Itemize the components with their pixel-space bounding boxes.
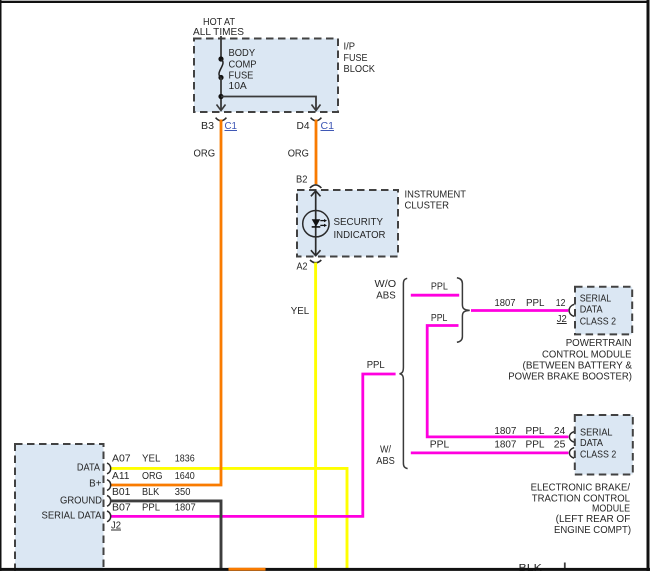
svg-text:1807: 1807 [494,426,516,437]
wire PPL serial data B07 up to brace [110,374,396,516]
svg-text:PPL: PPL [526,439,546,450]
wire PPL 25 W/ ABS [411,451,569,454]
svg-text:J2: J2 [111,521,121,532]
arrowhead B3 [217,105,226,111]
svg-text:CLASS 2: CLASS 2 [580,450,616,461]
instrument cluster box [297,190,398,257]
svg-text:SECURITY: SECURITY [334,217,384,228]
svg-text:YEL: YEL [142,454,161,465]
svg-text:POWERTRAIN: POWERTRAIN [566,338,632,349]
svg-text:B+: B+ [89,479,102,490]
wire BLK ground down [110,501,221,569]
svg-text:CLASS 2: CLASS 2 [580,316,616,327]
svg-text:B2: B2 [296,175,307,186]
svg-text:PPL: PPL [431,313,448,324]
svg-text:C1: C1 [321,121,335,132]
svg-text:10A: 10A [229,81,248,92]
arrowhead D4 [312,105,321,111]
junction dot [218,94,223,99]
svg-text:COMP: COMP [229,59,257,70]
svg-text:DATA: DATA [580,438,603,449]
cut-off wire stub bottom right [564,563,566,570]
wire feed into fuse [220,36,222,59]
svg-text:PPL: PPL [431,282,448,293]
svg-text:I/P: I/P [344,41,356,52]
fuse BODY COMP FUSE 10A [218,48,257,92]
I/P fuse block box [194,39,338,113]
svg-text:ENGINE COMPT): ENGINE COMPT) [554,525,631,536]
svg-text:BODY: BODY [229,48,256,59]
brace right merge [457,278,470,343]
wire YEL data to down [110,468,347,568]
svg-text:ORG: ORG [288,149,309,160]
svg-text:B07: B07 [112,502,131,513]
svg-text:SERIAL: SERIAL [580,293,612,304]
svg-text:A11: A11 [112,471,130,482]
brace left W/O-W/ ABS [400,278,408,468]
svg-text:PPL: PPL [367,360,386,371]
wire YEL A2 down [314,263,317,569]
svg-text:MODULE: MODULE [592,504,630,515]
svg-text:B3: B3 [201,121,215,132]
svg-text:ORG: ORG [194,149,216,160]
svg-text:PPL: PPL [142,502,161,513]
svg-text:C1: C1 [225,121,238,132]
wire branch to D4 [221,97,316,111]
svg-text:PPL: PPL [430,439,450,450]
svg-text:1807: 1807 [495,298,516,309]
pin 24 arc [569,432,574,443]
body control module box [15,444,104,571]
pin 25 arc [569,448,574,459]
svg-text:SERIAL: SERIAL [580,428,613,439]
wire PPL option 2 down to pin 24 [427,326,568,437]
svg-text:FUSE: FUSE [229,70,254,81]
svg-text:FUSE: FUSE [344,53,368,64]
svg-text:BLOCK: BLOCK [344,64,376,75]
cut-off wire ORG bottom [229,568,266,571]
svg-text:1836: 1836 [175,454,195,465]
wire ORG B3 down to B+ pin [110,120,221,486]
svg-text:ALL TIMES: ALL TIMES [193,27,244,38]
svg-text:B01: B01 [112,487,130,498]
svg-text:PPL: PPL [526,426,546,437]
svg-text:ORG: ORG [142,471,163,482]
connector A2 arc [310,260,321,263]
svg-text:DATA: DATA [580,304,603,315]
svg-text:ABS: ABS [376,456,395,467]
security indicator lamp [303,191,329,256]
svg-text:BLK: BLK [142,487,160,498]
svg-text:POWER BRAKE BOOSTER): POWER BRAKE BOOSTER) [508,372,632,383]
svg-text:(BETWEEN BATTERY &: (BETWEEN BATTERY & [523,361,633,372]
svg-text:A2: A2 [297,262,308,273]
svg-text:1640: 1640 [175,471,195,482]
svg-text:ABS: ABS [376,291,396,302]
svg-text:A07: A07 [112,454,131,465]
pin 12 arc [569,304,574,316]
svg-text:INSTRUMENT: INSTRUMENT [405,189,467,200]
svg-text:24: 24 [554,426,566,437]
svg-text:W/: W/ [380,445,391,456]
connector B3 C1 arc [216,118,227,121]
svg-text:INDICATOR: INDICATOR [334,230,386,241]
svg-text:W/O: W/O [375,279,397,290]
svg-text:1807: 1807 [175,502,196,513]
connector D4 C1 arc [311,118,322,121]
svg-text:ELECTRONIC BRAKE/: ELECTRONIC BRAKE/ [531,483,631,494]
svg-text:12: 12 [556,298,566,309]
svg-text:(LEFT REAR OF: (LEFT REAR OF [556,514,631,525]
frame border [0,1,650,3]
svg-text:350: 350 [175,487,191,498]
svg-text:CLUSTER: CLUSTER [405,201,450,212]
PCM serial data class 2 box [575,287,632,335]
svg-text:YEL: YEL [291,306,310,317]
svg-text:GROUND: GROUND [60,495,102,506]
svg-text:PPL: PPL [526,298,545,309]
svg-text:D4: D4 [297,121,311,132]
svg-text:DATA: DATA [77,462,101,473]
wire PPL option 1 [411,294,459,297]
svg-text:1807: 1807 [494,439,516,450]
svg-text:CONTROL MODULE: CONTROL MODULE [542,350,632,361]
wire from fuse to B3 arrow [220,78,222,111]
svg-text:SERIAL DATA: SERIAL DATA [42,510,102,521]
svg-text:J2: J2 [557,314,567,325]
svg-text:25: 25 [554,439,566,450]
EBTCM serial data class 2 box [575,415,633,475]
wire 1807 PPL 12 to PCM [471,309,568,312]
wire ORG D4 down to B2 [315,120,318,185]
